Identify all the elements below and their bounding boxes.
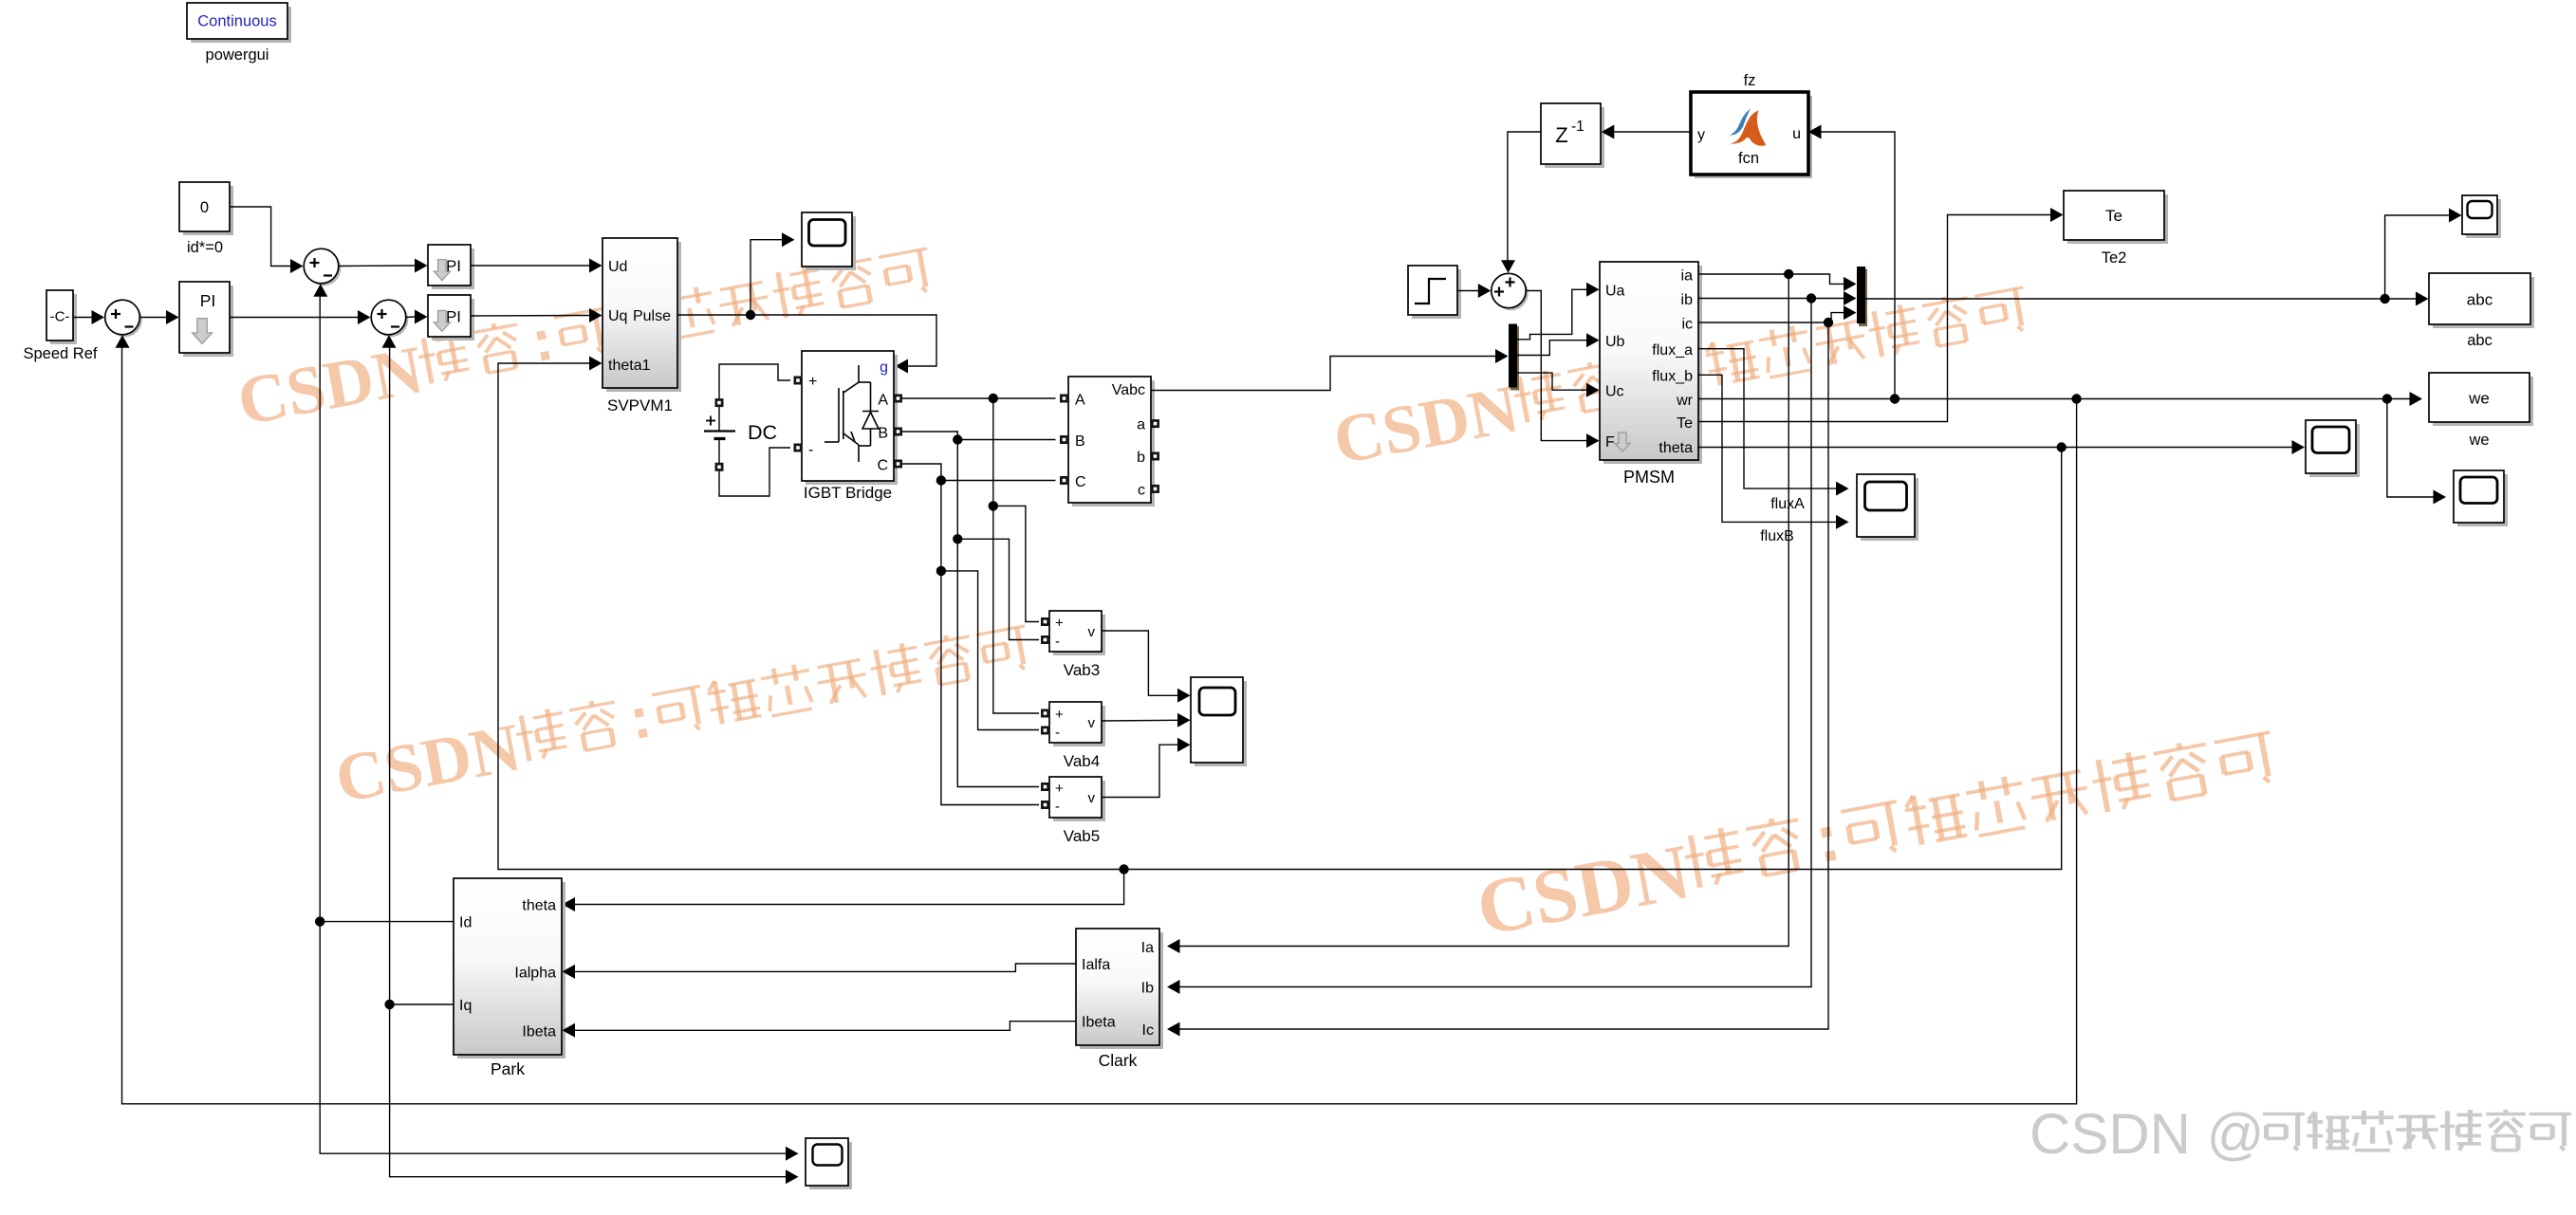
wire Park Iq feedback to S3 and scope — [390, 1003, 454, 1005]
wire Vab3 to scope — [1102, 631, 1177, 695]
wire phase A drop to Vab3+ and Vab4+ — [993, 398, 1039, 713]
wire fcn y to z-1 — [1614, 131, 1691, 133]
svg-text:-: - — [808, 442, 813, 458]
svg-text:Speed Ref: Speed Ref — [24, 345, 98, 362]
svg-text:Z: Z — [1555, 123, 1567, 147]
wire S4 to PMSM F input — [1526, 291, 1586, 441]
svg-text:Uc: Uc — [1605, 384, 1624, 400]
sum S4 (step plus z-1) — [1493, 276, 1528, 310]
wire phase B drop to Vab3- and Vab5+ — [957, 440, 1039, 787]
svg-text:+: + — [1055, 707, 1064, 723]
svg-text:wr: wr — [1676, 393, 1694, 409]
svg-text:C: C — [877, 458, 888, 474]
svg-text:flux_b: flux_b — [1652, 369, 1693, 385]
wire ia down to Clark Ia — [1180, 274, 1789, 947]
svg-text:ib: ib — [1681, 292, 1694, 308]
scope Id Iq bottom left — [809, 1142, 852, 1189]
wire wr down speed feedback long loop — [122, 348, 2077, 1104]
wire -C- to S1 — [73, 317, 92, 319]
svg-text:PI: PI — [200, 291, 216, 310]
scope bottom right — [2457, 474, 2508, 526]
wire demux out3 to PMSM Uc — [1517, 373, 1586, 390]
block MATLAB function fz — [1695, 96, 1812, 178]
svg-text:Park: Park — [491, 1059, 525, 1078]
svg-text:Ua: Ua — [1605, 284, 1625, 300]
wire Pulse branch to scope — [751, 240, 782, 315]
block SVPVM1 subsystem — [606, 242, 681, 392]
svg-text:theta: theta — [1659, 440, 1693, 456]
svg-text:PMSM: PMSM — [1623, 468, 1675, 487]
block Park transform — [457, 882, 565, 1059]
svg-text:+: + — [1055, 781, 1064, 797]
wire z-1 to S4 top — [1508, 132, 1541, 261]
wire constant 0 to S2 — [230, 207, 290, 267]
block Vab3 voltage measurement — [1053, 615, 1105, 655]
block constant Speed Ref (-C-) — [50, 294, 77, 344]
watermark 1 — [232, 237, 938, 440]
wire wr up to fcn u — [1822, 132, 1896, 399]
block constant id*=0 — [183, 186, 233, 235]
svg-text:-C-: -C- — [50, 309, 70, 325]
svg-text:ic: ic — [1681, 317, 1693, 333]
wire theta down to distribution — [498, 363, 2062, 870]
wire ic down to Clark Ic — [1180, 322, 1829, 1029]
wire mux out to abc with branch — [1865, 298, 2416, 300]
scope small top right — [2466, 199, 2501, 238]
wire PMSM flux_b to scope — [1698, 375, 1836, 522]
svg-text:fz: fz — [1744, 72, 1756, 89]
svg-text:SVPVM1: SVPVM1 — [607, 396, 673, 414]
wire ib down to Clark Ib — [1180, 299, 1812, 987]
svg-text:PI: PI — [446, 307, 461, 325]
block PI q-axis — [432, 299, 474, 341]
block unit delay z-1 — [1545, 107, 1604, 168]
sum S3 iq error — [374, 303, 409, 338]
scope fluxA fluxB — [1861, 478, 1918, 541]
wire step to S4 — [1457, 290, 1478, 292]
block Vab5 voltage measurement — [1053, 781, 1105, 821]
svg-text:b: b — [1137, 450, 1145, 466]
svg-text:Vabc: Vabc — [1112, 382, 1145, 398]
svg-text:theta1: theta1 — [608, 358, 651, 374]
wire S1 to PI speed — [140, 317, 167, 319]
svg-text:g: g — [880, 359, 888, 376]
wire battery plus to bridge — [719, 364, 790, 398]
svg-text:Ib: Ib — [1141, 981, 1154, 997]
svg-text:v: v — [1088, 790, 1096, 806]
wire PMSM Te to Te block — [1698, 215, 2050, 422]
svg-text:Vab3: Vab3 — [1064, 661, 1100, 679]
svg-text:ia: ia — [1681, 268, 1694, 285]
svg-text:Continuous: Continuous — [197, 13, 276, 30]
svg-text:PI: PI — [446, 257, 461, 275]
wire battery minus to bridge — [719, 448, 790, 496]
svg-text:powergui: powergui — [206, 46, 269, 64]
svg-text:abc: abc — [2467, 291, 2493, 309]
svg-text:Te: Te — [2105, 207, 2122, 225]
wire phase C drop to Vab4- and Vab5- — [941, 481, 1039, 805]
svg-text:-: - — [1055, 634, 1060, 650]
block powergui (Continuous) — [191, 7, 291, 43]
svg-text:Uq: Uq — [608, 308, 627, 324]
svg-text:CSDN @: CSDN @ — [2029, 1102, 2265, 1166]
scope Pulse (top) — [806, 216, 856, 270]
wire Vab5 to scope — [1102, 745, 1177, 797]
wire Pulse out with junction — [677, 315, 936, 366]
block we outport — [2433, 377, 2533, 426]
svg-text:-: - — [1055, 725, 1060, 741]
wire PMSM ic to mux and down — [1698, 313, 1844, 322]
watermark 2 — [1327, 276, 2034, 479]
wire PMSM wr to we with branches — [1698, 398, 2410, 400]
svg-text:fluxB: fluxB — [1760, 528, 1794, 544]
svg-text:we: we — [2468, 390, 2490, 408]
scope theta — [2309, 424, 2360, 477]
svg-text:0: 0 — [200, 199, 209, 216]
wire PMSM ib to mux and down — [1698, 298, 1844, 300]
wire bridge C to Vabc C — [902, 464, 1056, 481]
block Clark transform — [1080, 932, 1163, 1049]
svg-text:+: + — [808, 374, 817, 390]
svg-text:Ibeta: Ibeta — [1082, 1015, 1116, 1031]
wire wr branch to scope bottom right — [2387, 399, 2434, 498]
svg-text:Clark: Clark — [1099, 1051, 1138, 1070]
svg-text:we: we — [2468, 432, 2489, 449]
svg-text:c: c — [1138, 482, 1145, 498]
block Vabc three-phase measurement — [1072, 380, 1155, 506]
wire Clark Ibeta to Park Ibeta — [575, 1022, 1076, 1031]
svg-text:y: y — [1697, 127, 1705, 143]
svg-text:Vab4: Vab4 — [1064, 752, 1100, 770]
sum S1 speed error — [107, 303, 142, 338]
svg-text:Ia: Ia — [1141, 940, 1154, 956]
block Vab4 voltage measurement — [1053, 706, 1105, 746]
svg-text:Ialpha: Ialpha — [514, 965, 556, 981]
svg-text:Ub: Ub — [1605, 334, 1625, 350]
svg-text:-1: -1 — [1571, 119, 1585, 135]
block PMSM subsystem — [1603, 266, 1702, 464]
svg-text:IGBT Bridge: IGBT Bridge — [804, 484, 892, 502]
wire PMSM flux_a to scope — [1698, 349, 1836, 488]
wire bridge B to Vabc B — [902, 432, 1056, 440]
block step — [1412, 269, 1461, 319]
svg-text:Ic: Ic — [1142, 1022, 1154, 1039]
scope Vab (3 inputs) — [1195, 681, 1247, 766]
svg-text:A: A — [878, 393, 888, 409]
block IGBT Bridge — [806, 355, 898, 485]
watermark 4 — [1471, 719, 2284, 952]
block PI speed (big) — [183, 285, 233, 357]
svg-text:+: + — [1055, 616, 1064, 632]
svg-text:id*=0: id*=0 — [187, 239, 223, 256]
IGBT bridge icon — [825, 365, 879, 462]
svg-text:A: A — [1075, 393, 1085, 409]
svg-text:F: F — [1605, 434, 1615, 451]
wire Vab4 to scope — [1102, 719, 1177, 722]
svg-text:Te: Te — [1677, 415, 1693, 432]
wire S2 to PI d — [339, 265, 415, 267]
wire demux out2 to PMSM Ub — [1517, 341, 1586, 356]
DC voltage source battery — [715, 398, 724, 407]
wire PI q to SVPVM1 Uq — [471, 315, 589, 318]
block abc outport — [2433, 277, 2534, 328]
watermark CSDN gray bottom right — [2029, 1102, 2571, 1166]
svg-text:C: C — [1075, 474, 1086, 490]
svg-text:B: B — [878, 426, 888, 442]
mux M1 (ia ib ic to abc) — [1859, 269, 1867, 327]
wire Vabc out to demux — [1151, 357, 1495, 391]
block Te outport — [2067, 194, 2168, 244]
svg-text:abc: abc — [2467, 332, 2493, 349]
svg-text:Ibeta: Ibeta — [522, 1023, 556, 1040]
svg-text:a: a — [1137, 417, 1145, 433]
MATLAB logo in fcn — [1730, 109, 1767, 146]
wire PI d to SVPVM1 Ud — [471, 265, 589, 267]
svg-text:Vab5: Vab5 — [1064, 827, 1100, 845]
sum S2 id error — [306, 251, 342, 286]
svg-text:-: - — [1055, 799, 1060, 815]
wire bridge A to Vabc A — [902, 397, 1056, 399]
demux D1 (Vabc to Ua Ub Uc) — [1510, 326, 1519, 391]
wire Park Id feedback to S2 and scope — [320, 921, 454, 923]
svg-text:B: B — [1075, 433, 1085, 450]
svg-text:theta: theta — [522, 898, 556, 914]
wire Clark Ialfa to Park Ialpha — [575, 964, 1076, 971]
svg-text:Iq: Iq — [459, 998, 472, 1014]
wire PI speed to S3 — [230, 317, 358, 319]
wire theta branch to Park — [575, 870, 1124, 905]
svg-text:flux_a: flux_a — [1652, 342, 1693, 359]
wire S3 to PI q — [406, 316, 415, 319]
svg-text:v: v — [1088, 715, 1096, 731]
svg-text:u: u — [1792, 126, 1801, 142]
svg-text:Ialfa: Ialfa — [1082, 957, 1110, 973]
wire PMSM ia to mux and down — [1698, 274, 1844, 284]
wire branch up to small scope — [2385, 215, 2449, 299]
wire demux out1 to PMSM Ua — [1517, 289, 1586, 340]
svg-text:Ud: Ud — [608, 259, 627, 275]
svg-text:Id: Id — [459, 915, 472, 931]
svg-text:Pulse: Pulse — [633, 308, 671, 324]
svg-text:v: v — [1088, 624, 1096, 640]
svg-text:fcn: fcn — [1738, 150, 1759, 167]
block PI d-axis — [432, 249, 474, 289]
svg-text:DC: DC — [748, 421, 777, 444]
svg-text:Te2: Te2 — [2102, 249, 2127, 267]
svg-text:fluxA: fluxA — [1770, 496, 1805, 512]
wire PMSM theta to scope and down — [1698, 447, 2292, 449]
watermark 3 — [329, 615, 1036, 818]
